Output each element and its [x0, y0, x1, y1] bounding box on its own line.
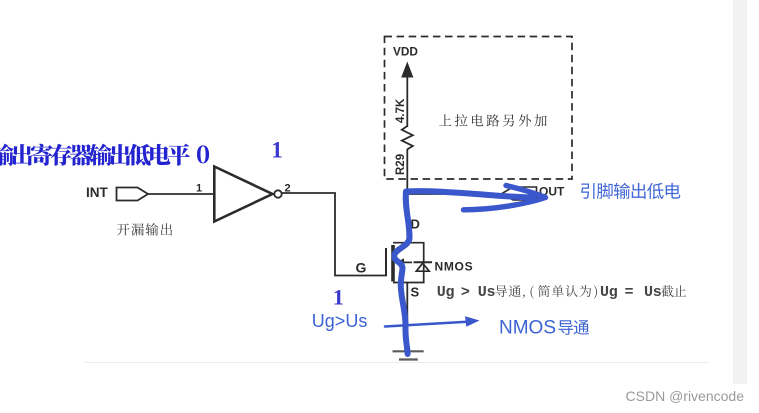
svg-text:2: 2 [285, 183, 291, 195]
svg-text:S: S [411, 285, 420, 300]
svg-text:Ug>Us: Ug>Us [312, 311, 368, 331]
svg-text:1: 1 [333, 285, 344, 310]
svg-text:4.7K: 4.7K [395, 98, 407, 123]
svg-text:Ug: Ug [437, 284, 455, 301]
svg-text:INT: INT [86, 185, 109, 200]
svg-text:Us: Us [644, 284, 662, 301]
svg-text:NMOS: NMOS [435, 260, 474, 274]
svg-text:=: = [625, 284, 634, 301]
svg-text:>: > [461, 284, 470, 301]
svg-text:Ug: Ug [600, 284, 618, 301]
svg-text:G: G [356, 260, 367, 276]
svg-text:NMOS: NMOS [499, 318, 556, 339]
svg-text:1: 1 [271, 138, 283, 163]
svg-text:Us: Us [478, 284, 496, 301]
svg-text:R29: R29 [395, 154, 407, 175]
svg-text:1: 1 [196, 183, 202, 195]
svg-text:VDD: VDD [393, 45, 418, 59]
